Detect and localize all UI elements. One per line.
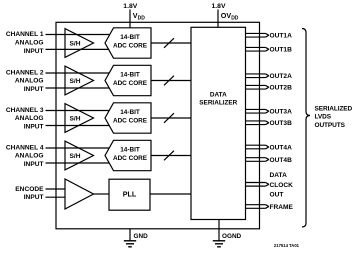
- 14-bit ADC core channel 4: [105, 140, 151, 170]
- svg-text:OUT3B: OUT3B: [270, 120, 293, 127]
- svg-text:S/H: S/H: [70, 78, 81, 85]
- svg-text:OUT2A: OUT2A: [270, 73, 293, 80]
- wire ADC3 digital bus to serializer: [151, 117, 191, 119]
- svg-text:OUT3A: OUT3A: [270, 109, 293, 116]
- svg-text:ANALOG: ANALOG: [15, 115, 44, 122]
- data serializer block: [191, 27, 246, 219]
- svg-text:1.8V: 1.8V: [212, 3, 226, 10]
- svg-text:S/H: S/H: [70, 115, 81, 122]
- svg-text:LVDS: LVDS: [315, 114, 332, 121]
- S/H amplifier channel 1: [65, 29, 94, 58]
- wire LVDS pair OUT4A: [246, 145, 269, 149]
- wire LVDS pair OUT1A: [246, 33, 269, 37]
- wire ADC1 digital bus to serializer: [151, 42, 191, 44]
- S/H amplifier channel 3: [65, 104, 94, 133]
- svg-text:S/H: S/H: [70, 40, 81, 47]
- wire LVDS pair OUT2A: [246, 74, 269, 78]
- bus-width slash mark: [164, 76, 174, 86]
- ground OGND symbol: [213, 241, 225, 247]
- svg-text:INPUT: INPUT: [24, 86, 44, 93]
- svg-text:14-BIT: 14-BIT: [120, 72, 140, 79]
- wire analog input -: [46, 48, 110, 50]
- wire LVDS pair FRAME: [246, 205, 269, 209]
- wire LVDS pair OUT1B: [246, 47, 269, 51]
- svg-text:FRAME: FRAME: [270, 204, 294, 211]
- node DATA CLOCK OUT label: [270, 172, 294, 199]
- wire analog input -: [46, 87, 110, 89]
- wire analog input +: [46, 72, 110, 74]
- svg-text:OVDD: OVDD: [221, 11, 239, 22]
- svg-text:14-BIT: 14-BIT: [120, 34, 140, 41]
- bus-width slash mark: [164, 113, 174, 123]
- wire analog input +: [46, 110, 110, 112]
- node SERIALIZED LVDS OUTPUTS label: [315, 106, 353, 129]
- node CHANNEL 2 ANALOG INPUT label: [6, 69, 44, 93]
- wire analog input -: [46, 125, 110, 127]
- svg-text:ADC CORE: ADC CORE: [113, 42, 148, 49]
- svg-text:OUT4B: OUT4B: [270, 157, 293, 164]
- power rail VDD 1.8V: [123, 3, 145, 28]
- svg-text:SERIALIZER: SERIALIZER: [199, 100, 237, 107]
- wire ADC4 digital bus to serializer: [151, 155, 191, 157]
- svg-text:OUT1B: OUT1B: [270, 47, 293, 54]
- wire OGND stub: [218, 220, 220, 241]
- svg-text:ADC CORE: ADC CORE: [113, 117, 148, 124]
- svg-text:ANALOG: ANALOG: [15, 78, 44, 85]
- node CHANNEL 4 ANALOG INPUT label: [6, 144, 44, 168]
- svg-text:PLL: PLL: [123, 190, 137, 199]
- svg-text:DATA: DATA: [270, 172, 288, 179]
- ground GND symbol: [124, 241, 136, 247]
- svg-text:1.8V: 1.8V: [123, 3, 137, 10]
- wire LVDS pair CLOCK: [246, 183, 269, 187]
- wire LVDS pair OUT4B: [246, 158, 269, 162]
- 14-bit ADC core channel 1: [105, 28, 151, 58]
- svg-text:OUT: OUT: [270, 192, 284, 199]
- wire GND stub: [129, 229, 131, 241]
- svg-text:CHANNEL 1: CHANNEL 1: [6, 31, 44, 38]
- wire LVDS pair OUT3B: [246, 121, 269, 125]
- wire analog input -: [46, 162, 110, 164]
- 14-bit ADC core channel 2: [105, 65, 151, 95]
- svg-text:CHANNEL 2: CHANNEL 2: [6, 69, 44, 76]
- svg-text:SERIALIZED: SERIALIZED: [315, 106, 353, 113]
- svg-text:14-BIT: 14-BIT: [120, 147, 140, 154]
- wire ADC2 digital bus to serializer: [151, 80, 191, 82]
- 14-bit ADC core channel 3: [105, 103, 151, 133]
- wire encode buffer to PLL: [94, 193, 110, 195]
- svg-text:OUT4A: OUT4A: [270, 144, 293, 151]
- S/H amplifier channel 4: [65, 141, 94, 170]
- svg-text:OGND: OGND: [222, 233, 242, 240]
- svg-text:INPUT: INPUT: [24, 194, 44, 201]
- bus-width slash mark: [164, 151, 174, 161]
- svg-text:GND: GND: [134, 233, 149, 240]
- svg-text:217514 TA01: 217514 TA01: [274, 243, 300, 248]
- brace serialized LVDS outputs: [302, 29, 310, 228]
- svg-text:INPUT: INPUT: [24, 124, 44, 131]
- svg-text:ADC CORE: ADC CORE: [113, 80, 148, 87]
- power rail OVDD 1.8V: [212, 3, 239, 27]
- chip outline box: [56, 22, 260, 229]
- wire PLL to serializer: [150, 193, 191, 195]
- svg-text:INPUT: INPUT: [24, 161, 44, 168]
- wire LVDS pair OUT3A: [246, 109, 269, 113]
- encode clock buffer amplifier: [65, 179, 94, 209]
- wire encode input +: [46, 188, 66, 190]
- svg-text:ADC CORE: ADC CORE: [113, 155, 148, 162]
- wire analog input +: [46, 147, 110, 149]
- svg-text:ENCODE: ENCODE: [15, 186, 44, 193]
- node CHANNEL 3 ANALOG INPUT label: [6, 107, 44, 131]
- bus-width slash mark: [164, 38, 174, 48]
- node ENCODE INPUT label: [15, 186, 44, 201]
- wire encode input -: [46, 196, 66, 198]
- wire analog input +: [46, 34, 110, 36]
- svg-text:S/H: S/H: [70, 153, 81, 160]
- svg-text:CHANNEL 3: CHANNEL 3: [6, 107, 44, 114]
- svg-text:OUTPUTS: OUTPUTS: [315, 122, 346, 129]
- wire LVDS pair OUT2B: [246, 85, 269, 89]
- svg-text:VDD: VDD: [133, 11, 145, 22]
- svg-text:INPUT: INPUT: [24, 48, 44, 55]
- svg-text:DATA: DATA: [210, 92, 227, 99]
- svg-text:OUT1A: OUT1A: [270, 33, 293, 40]
- svg-text:CHANNEL 4: CHANNEL 4: [6, 144, 44, 151]
- svg-text:OUT2B: OUT2B: [270, 85, 293, 92]
- PLL block: [109, 179, 150, 210]
- svg-text:ANALOG: ANALOG: [15, 153, 44, 160]
- node CHANNEL 1 ANALOG INPUT label: [6, 31, 44, 55]
- svg-text:ANALOG: ANALOG: [15, 39, 44, 46]
- S/H amplifier channel 2: [65, 66, 94, 95]
- svg-text:14-BIT: 14-BIT: [120, 109, 140, 116]
- svg-text:CLOCK: CLOCK: [270, 182, 294, 189]
